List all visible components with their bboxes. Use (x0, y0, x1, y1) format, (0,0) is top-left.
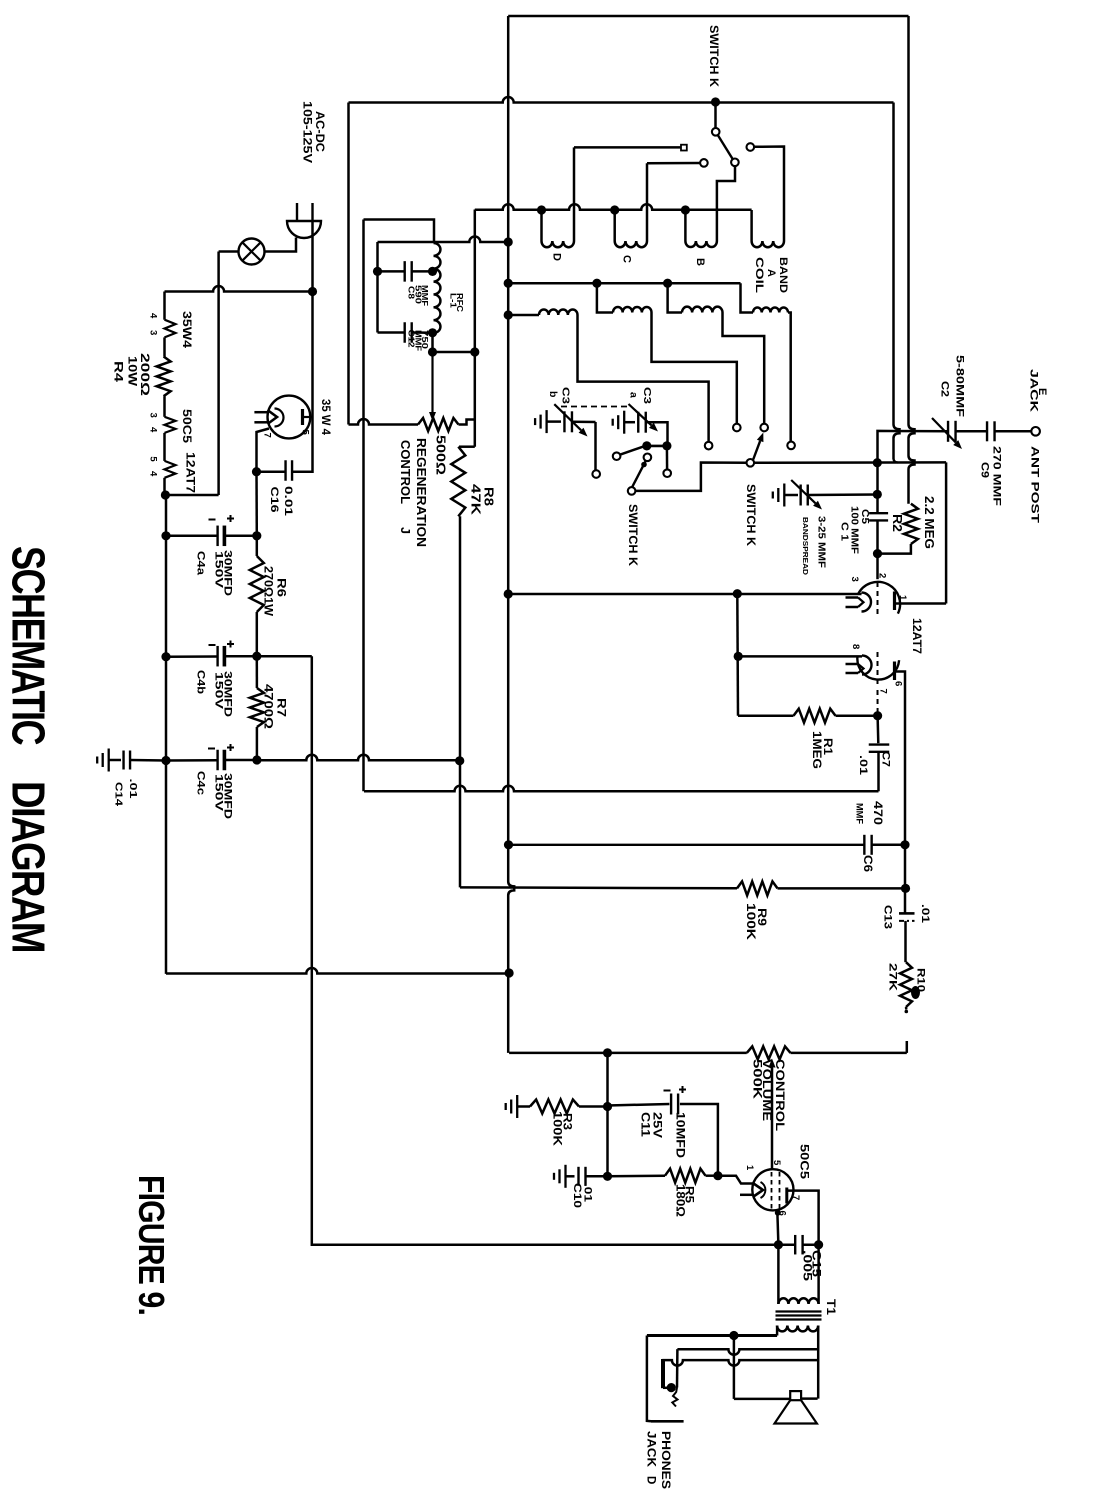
svg-text:R2: R2 (890, 514, 904, 532)
svg-text:27K: 27K (887, 963, 899, 991)
left rail x166 (165, 495, 168, 974)
phones jack contact blob (667, 1383, 676, 1392)
wire regen line x363 (362, 220, 365, 792)
junction dot sw2 (662, 441, 671, 450)
junction dot bus2 (504, 279, 513, 288)
C4c plus (227, 747, 234, 749)
band coil C primary (613, 210, 616, 241)
junction dot C4c right (252, 755, 261, 764)
junction dot (734, 652, 743, 661)
potentiometer 500 ohm regeneration control J (349, 419, 419, 424)
wire bottom rail y1053 (509, 1052, 747, 1055)
resistor R5 180 ohm (608, 1174, 666, 1177)
switch contact below sw1 (644, 454, 652, 462)
switch contact B (731, 159, 739, 167)
svg-text:470: 470 (871, 801, 883, 825)
ground for C14 (108, 749, 110, 772)
C4a plus (227, 518, 234, 520)
junction dot (603, 1048, 612, 1057)
svg-text:R7: R7 (274, 698, 286, 717)
svg-text:R8: R8 (482, 487, 496, 506)
junction dot D2 (504, 310, 513, 319)
svg-text:ANT POST: ANT POST (1029, 446, 1041, 523)
resistor R10 27K (900, 962, 912, 1007)
heater of 50C5 (pins 3-4) (165, 417, 176, 433)
50C5 cathode lead (777, 1210, 778, 1244)
svg-text:0.01: 0.01 (282, 486, 294, 516)
svg-text:10MFD: 10MFD (673, 1112, 685, 1158)
svg-text:C11: C11 (638, 1112, 650, 1138)
svg-text:C4b: C4b (195, 670, 207, 694)
50C5 grid dashes (771, 1172, 773, 1209)
svg-text:R4: R4 (112, 361, 126, 382)
wire sw2 down (666, 446, 669, 470)
junction dot grid line (873, 458, 882, 467)
C11 minus (664, 1090, 671, 1092)
svg-text:T1: T1 (824, 1299, 836, 1316)
junction dot (603, 1172, 612, 1181)
switch contact below sw2 (663, 469, 671, 477)
transformer T1 core (776, 1310, 822, 1312)
svg-text:SWITCH K: SWITCH K (707, 25, 719, 88)
junction dot AC line A (308, 287, 317, 296)
junction dot C4a right (252, 531, 261, 540)
svg-text:4: 4 (147, 313, 158, 319)
junction dot (729, 1331, 738, 1340)
svg-text:12AT7: 12AT7 (184, 452, 198, 493)
variable capacitor C3a (624, 421, 635, 424)
junction dot (900, 840, 909, 849)
12AT7 lower heater stubs (846, 663, 859, 666)
switch contact C3b (592, 470, 600, 478)
svg-text:VOLUME: VOLUME (760, 1059, 772, 1121)
junction dot (504, 589, 513, 598)
capacitor C5 100MMF (869, 512, 888, 514)
svg-text:C14: C14 (113, 782, 125, 806)
capacitor C10 .01 (566, 1175, 575, 1178)
svg-text:REGENERATION: REGENERATION (414, 438, 428, 547)
svg-text:C6: C6 (861, 855, 873, 872)
wire top line y16 (508, 15, 908, 18)
heater of 12AT7 (pins 4-5) (165, 461, 176, 478)
svg-text:4: 4 (147, 471, 158, 477)
svg-text:BANDSPREAD: BANDSPREAD (801, 517, 810, 575)
svg-text:C5: C5 (859, 509, 871, 524)
volume wiper arrow (771, 1068, 773, 1071)
svg-text:150V: 150V (212, 551, 224, 589)
secondary bus y283 (508, 282, 740, 285)
band coil A primary (750, 210, 753, 241)
svg-text:3-25 MMF: 3-25 MMF (815, 516, 826, 568)
junction dot (733, 589, 742, 598)
svg-text:7: 7 (262, 433, 273, 438)
C4b minus (209, 644, 216, 646)
AC plug P1 (287, 221, 321, 238)
heater string spine top (163, 292, 166, 320)
svg-text:C16: C16 (268, 487, 280, 513)
primary coil bus (hops) (475, 204, 752, 210)
capacitor C6 470MMF (509, 844, 865, 846)
junction dot (504, 840, 513, 849)
svg-text:35W4: 35W4 (180, 311, 194, 348)
resistor R9 100K (737, 881, 778, 895)
capacitor C11 10MFD electrolytic (608, 1104, 670, 1106)
transformer T1 secondary (777, 1326, 818, 1332)
junction dot coil D (537, 205, 546, 214)
switch K lever (lower left) (632, 460, 646, 487)
12AT7 lower grid dashes (pin 7) (877, 652, 879, 688)
wire lever to right switch (635, 463, 747, 491)
wire C16 node down (255, 472, 258, 536)
wire (163, 433, 166, 461)
wire coil B to switch (717, 166, 735, 241)
svg-text:a: a (628, 392, 640, 398)
wire heater top to AC line A (hop over lamp wire) (165, 286, 313, 292)
junction dot coil B (681, 205, 690, 214)
switch K pivot (right) (747, 459, 755, 467)
svg-text:FIGURE 9.: FIGURE 9. (131, 1175, 172, 1315)
junction dot coil C (610, 205, 619, 214)
svg-text:3: 3 (147, 413, 158, 418)
svg-text:BAND: BAND (777, 257, 789, 293)
svg-text:C3: C3 (560, 387, 572, 404)
svg-text:CONTROL: CONTROL (773, 1059, 785, 1131)
svg-text:500Ω: 500Ω (434, 435, 448, 475)
svg-text:D: D (551, 253, 563, 261)
wire (163, 337, 166, 356)
svg-text:5-80MMF: 5-80MMF (954, 355, 966, 417)
wire top feed y102 (hop at 508) (349, 97, 894, 103)
ground for R3 (516, 1095, 518, 1118)
svg-text:25V: 25V (650, 1112, 662, 1138)
svg-text:150V: 150V (212, 774, 224, 812)
resistor R4 200 ohm 10W (157, 357, 171, 397)
switch contact (613, 452, 621, 460)
wire speaker left (733, 1336, 736, 1399)
transformer T1 primary (777, 1245, 780, 1304)
junction dot C4a left (161, 531, 170, 540)
phones jack bottom (663, 1387, 669, 1390)
wire coil D to contact (573, 147, 576, 241)
svg-text:C10: C10 (571, 1183, 583, 1208)
svg-text:105-125V: 105-125V (300, 101, 312, 163)
switch contact C2 (733, 424, 741, 432)
50C5 plate bar pin 7 (785, 1188, 788, 1204)
svg-text:PHONES: PHONES (659, 1431, 671, 1489)
capacitor C4a 30MFD (166, 535, 218, 538)
svg-text:MMF: MMF (854, 803, 865, 824)
svg-text:12AT7: 12AT7 (910, 618, 922, 654)
svg-text:5: 5 (771, 1160, 782, 1166)
svg-text:C4c: C4c (195, 771, 207, 795)
junction dot heater string bottom (161, 490, 170, 499)
pot wiper arrow (regeneration) (431, 352, 433, 412)
svg-text:C12: C12 (407, 330, 417, 348)
junction dot (252, 467, 261, 476)
switch contact A2 (787, 442, 795, 450)
wire speaker right (801, 1397, 818, 1400)
switch contact A (747, 143, 755, 151)
junction dot (504, 237, 513, 246)
35W4 filament (268, 410, 278, 424)
35W4 heater stubs (254, 411, 268, 414)
junction dot (428, 347, 437, 356)
wire R8 corner to R9 (460, 886, 737, 889)
svg-text:50C5: 50C5 (797, 1144, 809, 1180)
junction dot C8 right (428, 267, 437, 276)
wire lower cathode line (736, 594, 739, 716)
gang link dashed (561, 406, 628, 408)
switch contact D2 (705, 442, 713, 450)
phones jack D frame bar (661, 1359, 665, 1388)
RFC block left vertical (376, 242, 379, 333)
C4b plus (227, 643, 234, 645)
junction dot on R8 line (455, 756, 464, 765)
svg-text:35 W 4: 35 W 4 (319, 399, 331, 436)
svg-text:C2: C2 (939, 381, 951, 397)
wire (163, 478, 166, 495)
antenna post jack E (1031, 427, 1040, 436)
resistor R6 270 ohm 1W (256, 536, 259, 556)
ground for C10 (564, 1165, 566, 1188)
svg-text:6: 6 (893, 681, 904, 686)
capacitor C4b 30MFD (166, 655, 218, 658)
tube 50C5 V2 envelope (752, 1169, 793, 1210)
capacitor C4c 30MFD (166, 759, 218, 762)
svg-text:.01: .01 (857, 755, 869, 775)
svg-text:1: 1 (897, 595, 908, 601)
svg-text:R9: R9 (755, 908, 769, 926)
junction dot C12 right (428, 328, 437, 337)
band coil A secondary (741, 283, 754, 312)
band coil B primary (684, 210, 687, 241)
resistor R2 2.2 MEG (904, 504, 918, 544)
wire x607 column (606, 1053, 609, 1176)
wire x946 plate riser (945, 462, 948, 603)
svg-text:COIL: COIL (753, 257, 765, 293)
wire between (647, 445, 667, 448)
wire lamp to heater string (219, 250, 239, 253)
C11 plus (679, 1089, 686, 1091)
svg-text:JACK: JACK (644, 1431, 656, 1468)
12AT7 grid dashes (pin 2) (877, 582, 879, 617)
switch contact C (700, 159, 708, 167)
wire R10 to bottom rail (906, 1041, 909, 1053)
capacitor C14 .01 (109, 759, 121, 762)
svg-text:47K: 47K (469, 484, 483, 515)
50C5 filament (754, 1184, 764, 1197)
svg-text:R6: R6 (274, 578, 286, 597)
svg-text:1: 1 (744, 1165, 755, 1171)
svg-text:270Ω1W: 270Ω1W (261, 566, 273, 616)
svg-text:3: 3 (147, 330, 158, 335)
junction dot (603, 1102, 612, 1111)
junction dot C4b left (161, 652, 170, 661)
svg-text:C3: C3 (641, 387, 653, 404)
wire regen riser x348 (347, 103, 350, 425)
svg-text:C7: C7 (880, 751, 892, 767)
junction dot (774, 1240, 783, 1249)
svg-text:SWITCH K: SWITCH K (744, 484, 756, 547)
wire cathode line y594 (508, 593, 861, 596)
svg-text:A: A (765, 269, 777, 277)
50C5 heater stub (740, 1194, 753, 1197)
svg-text:.01: .01 (919, 904, 931, 923)
ground for C3a (623, 411, 625, 434)
tube 12AT7 lower triode envelope (arc open at top) (857, 657, 899, 679)
svg-text:R1: R1 (821, 738, 835, 755)
wire jack ring line (hop) (677, 1349, 818, 1355)
phones jack spring (676, 1349, 679, 1387)
12AT7 heater stubs (846, 596, 859, 599)
svg-text:D: D (644, 1476, 656, 1484)
junction dot (505, 968, 514, 977)
speaker (790, 1391, 801, 1400)
ink blob (911, 986, 920, 999)
inductor L-1 RFC (434, 243, 441, 333)
capacitor C12 750MMF (378, 331, 405, 334)
switch contact B2 (760, 424, 768, 432)
tube 12AT7 upper triode envelope (arc open at bottom) (858, 582, 900, 614)
resistor R1 1MEG (738, 714, 794, 717)
junction dot (901, 884, 910, 893)
svg-text:7: 7 (790, 1195, 801, 1200)
wire C4b node to B- drop (257, 655, 312, 658)
capacitor C7 .01 (876, 716, 879, 744)
wire lower grid lead (dashed) (877, 690, 879, 714)
svg-text:RFC: RFC (455, 293, 465, 312)
svg-text:5: 5 (147, 456, 158, 462)
wire left rail bottom to x509 (hop) (166, 968, 509, 974)
wire x893 rail (894, 103, 900, 460)
C4a minus (209, 519, 216, 521)
svg-text:DIAGRAM: DIAGRAM (2, 781, 54, 952)
wire grid column top corner (878, 431, 949, 514)
wire x475 selector common (474, 210, 477, 447)
junction dot (873, 711, 882, 720)
svg-text:10W: 10W (126, 356, 140, 387)
svg-text:C13: C13 (882, 905, 894, 929)
svg-text:C4a: C4a (195, 551, 207, 576)
junction dot (873, 490, 882, 499)
wire x508 rail (508, 16, 514, 1053)
wire pivot line to C2 corner (754, 461, 946, 464)
svg-text:R3: R3 (560, 1113, 572, 1130)
svg-text:7: 7 (878, 689, 889, 694)
junction dot (713, 1171, 722, 1180)
12AT7 plate pin 1 (893, 592, 896, 611)
wire to lamp line (165, 494, 218, 497)
junction dot C4c left (161, 756, 170, 765)
wire pin7 to C16 node (257, 429, 270, 472)
svg-text:2.2 MEG: 2.2 MEG (922, 496, 936, 549)
svg-text:SWITCH K: SWITCH K (626, 504, 638, 567)
capacitor C16 0.01 (257, 470, 286, 473)
svg-text:AC-DC: AC-DC (313, 111, 325, 152)
svg-text:100 MMF: 100 MMF (849, 506, 861, 555)
wire secondary left line (647, 1334, 777, 1337)
junction dot C8 left (373, 267, 382, 276)
band coil B secondary (668, 283, 682, 312)
ground for C1 (783, 484, 785, 507)
band coil C secondary (597, 283, 613, 312)
junction dot (814, 1240, 823, 1249)
wire jack tip line (647, 1336, 651, 1422)
svg-text:150V: 150V (212, 672, 224, 710)
svg-text:b: b (547, 391, 559, 397)
wire to 50C5 (718, 1176, 753, 1184)
wire jack frame line (hops) (662, 1360, 818, 1366)
svg-text:2: 2 (877, 573, 888, 578)
C4c minus (208, 748, 215, 750)
switch K arm (top) (711, 97, 720, 106)
capacitor C9 270MMF (956, 430, 987, 433)
junction dot (592, 279, 601, 288)
svg-text:4: 4 (147, 427, 158, 433)
wire (433, 351, 475, 354)
svg-text:5: 5 (300, 430, 311, 436)
switch K lever arrow (753, 441, 760, 460)
wire coil top pigtail (364, 220, 435, 244)
svg-text:E: E (1036, 388, 1048, 395)
junction dot sw1 (642, 441, 651, 450)
junction dot grid (873, 549, 882, 558)
wire coil A to contact (754, 147, 784, 242)
capacitor C15 .005 (778, 1243, 795, 1246)
tube 35W4 V3 envelope (268, 396, 311, 439)
svg-text:4700Ω: 4700Ω (261, 684, 273, 729)
ground for C3b (545, 410, 547, 433)
wire B- drop x312 (312, 656, 779, 1244)
svg-text:SCHEMATIC: SCHEMATIC (2, 546, 54, 745)
capacitor C13 .01 (899, 912, 915, 915)
variable capacitor C2 5-80MMF (947, 421, 949, 442)
heater of 35W4 (pins 4-3) (165, 320, 176, 338)
wire R8 down (459, 516, 462, 887)
svg-text:C 1: C 1 (838, 522, 849, 542)
wire to R8 (459, 445, 475, 448)
band coil D primary (540, 210, 543, 241)
12AT7 cathode pin 3 (862, 593, 872, 612)
band coil D secondary (508, 314, 539, 317)
wire coil bottom (431, 333, 434, 352)
wire (163, 396, 166, 417)
wire grid lead (876, 554, 879, 580)
svg-text:270 MMF: 270 MMF (991, 446, 1003, 506)
svg-text:B: B (694, 258, 706, 266)
resistor R3 100K (517, 1105, 530, 1108)
wire AC line A (plug right prong down) (293, 221, 313, 472)
12AT7 lower plate pin 6 (893, 662, 896, 681)
junction dot (663, 279, 672, 288)
variable capacitor C3b (547, 420, 561, 423)
pilot lamp I1 (239, 239, 265, 265)
junction dot C4b right (252, 652, 261, 661)
svg-text:3: 3 (849, 577, 860, 582)
svg-text:8: 8 (850, 644, 861, 649)
wire y242 RFC feed (hop at 475) (378, 237, 509, 243)
switch pivot (628, 487, 636, 495)
svg-text:50C5: 50C5 (180, 409, 194, 443)
potentiometer 500K volume control (747, 1046, 791, 1059)
svg-text:.01: .01 (127, 779, 139, 799)
svg-text:MMF: MMF (420, 285, 430, 306)
junction dot (470, 347, 479, 356)
12AT7 lower cathode pin 8 (862, 656, 872, 675)
svg-text:J: J (398, 527, 412, 534)
svg-text:C9: C9 (979, 462, 991, 478)
resistor R7 4700 ohm (256, 656, 259, 688)
